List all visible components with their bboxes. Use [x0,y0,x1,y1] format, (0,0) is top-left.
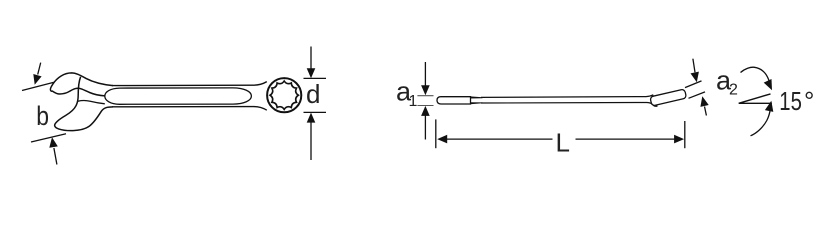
dimension d top tick [304,77,327,79]
15 deg upper arc arrow [741,67,770,81]
ring end 12-point profile [270,81,298,109]
dimension d bottom arrow [307,113,316,123]
L extension line right [684,121,686,148]
dimension b bottom tick [31,134,66,142]
side view: taper wedge top [470,96,483,98]
wrench handle bottom edge [112,107,267,111]
wrench handle top edge [112,82,267,86]
svg-text:2: 2 [729,82,738,99]
label b [36,101,49,131]
dimension a2 bottom arrow [705,107,707,116]
svg-text:L: L [556,128,570,158]
dimension b top arrow [38,63,41,75]
handle inner oval [105,88,252,104]
dimension a1 ticks [417,95,433,97]
15 deg lower arc arrow [751,109,771,136]
wrench open-end head: neck S-curve + mouth root + lower flat + lower prong + bottom outline [55,77,113,131]
label 15deg [779,87,802,116]
svg-text:15: 15 [779,87,802,116]
dimension d top arrow [310,47,312,71]
L extension line left [435,119,437,148]
svg-text:1: 1 [409,93,418,110]
L dimension line left part [437,135,447,144]
ring end outer circle [267,78,301,112]
dimension b top tick [22,82,54,90]
15 degree wedge [739,94,772,103]
wrench head lower fishtail line [78,101,105,104]
dimension a1 bottom arrow [421,106,430,116]
dimension a1 top arrow [424,62,426,87]
side view: handle top edge [481,95,653,98]
svg-text:d: d [306,79,320,109]
dimension b bottom arrow [54,148,57,165]
dimension d bottom tick [304,111,327,113]
side view: handle bottom edge [481,103,658,107]
dimension a2 top arrow [693,59,695,73]
side view: open-end head [437,97,471,104]
svg-text:b: b [36,101,49,131]
side view: angled ring end [650,89,687,106]
L dimension line right part [576,138,678,140]
dimension a2 ticks [685,81,702,88]
side view: taper wedge bottom [470,102,483,104]
svg-text:°: ° [804,86,814,116]
wrench open-end head: outer top outline + upper prong + upper flat + fishtail [50,73,113,96]
